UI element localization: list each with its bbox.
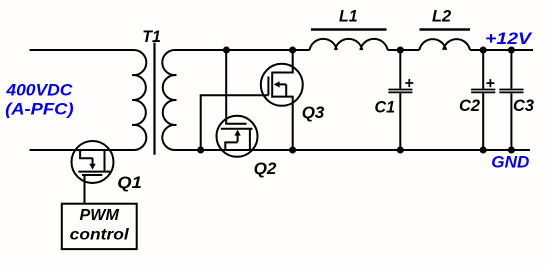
svg-text:L1: L1: [339, 6, 358, 25]
svg-text:PWM: PWM: [80, 207, 120, 224]
PWM control box: [62, 204, 137, 249]
node top rail C1: [397, 47, 404, 54]
wire Q2 gate to top rail: [225, 50, 227, 124]
transistor Q2 circle: [217, 116, 258, 157]
svg-text:C1: C1: [375, 97, 396, 116]
wire secondary top rail: [175, 49, 310, 51]
transformer T1 primary winding: [132, 50, 146, 150]
svg-text:GND: GND: [491, 153, 529, 171]
inductor L2 core bar: [420, 28, 471, 30]
transistor Q1 internals: [78, 150, 110, 175]
wire primary bottom: [30, 149, 135, 151]
svg-text:+12V: +12V: [485, 30, 533, 48]
transformer T1 secondary winding: [162, 50, 176, 150]
inductor L1: [310, 39, 388, 50]
node top rail Q3 drain: [289, 47, 296, 54]
inductor L1 core bar: [311, 28, 387, 30]
wire top rail right: [470, 49, 533, 51]
svg-text:(A-PFC): (A-PFC): [5, 99, 74, 118]
node bottom rail C3: [508, 147, 515, 154]
transistor Q3 internals: [268, 50, 292, 150]
wire between L1 and L2: [388, 49, 420, 51]
svg-text:L2: L2: [432, 6, 452, 25]
transistor Q3 circle: [261, 64, 303, 106]
transistor Q3 arrow: [274, 81, 280, 87]
capacitor C1 plates: [388, 90, 412, 93]
svg-text:C3: C3: [513, 96, 535, 115]
node top rail C3: [508, 47, 515, 54]
capacitor C2 leads: [482, 50, 484, 150]
capacitor C2 plus sign: [486, 79, 494, 87]
svg-text:Q1: Q1: [117, 173, 142, 192]
transformer T1 core: [153, 43, 155, 155]
transistor Q1 circle: [72, 141, 114, 183]
inductor L2: [419, 39, 470, 50]
svg-text:400VDC: 400VDC: [5, 80, 73, 99]
transistor Q2 internals: [221, 124, 253, 150]
capacitor C3 plates: [499, 90, 523, 93]
node top rail Q2 gate: [223, 47, 230, 54]
wire Q1 gate to PWM: [84, 175, 86, 204]
node top rail C2: [480, 47, 487, 54]
capacitor C2 plates: [471, 90, 495, 93]
wire Q3 gate to bottom rail: [201, 95, 269, 150]
svg-text:control: control: [70, 227, 130, 244]
capacitor C1 leads: [399, 50, 401, 150]
wire bottom rail: [175, 149, 530, 151]
svg-text:C2: C2: [459, 96, 481, 115]
capacitor C3 leads: [510, 50, 512, 150]
svg-text:Q2: Q2: [254, 159, 277, 178]
node bottom rail C1: [397, 147, 404, 154]
svg-text:T1: T1: [142, 27, 161, 46]
node bottom rail Q3 gate: [197, 147, 204, 154]
svg-text:Q3: Q3: [302, 103, 325, 122]
node bottom rail C2: [480, 147, 487, 154]
transistor Q2 arrow: [234, 130, 240, 136]
transistor Q1 arrow: [89, 164, 95, 170]
node bottom rail Q3 source: [289, 147, 296, 154]
wire primary top: [30, 49, 135, 51]
capacitor C1 plus sign: [405, 79, 413, 87]
